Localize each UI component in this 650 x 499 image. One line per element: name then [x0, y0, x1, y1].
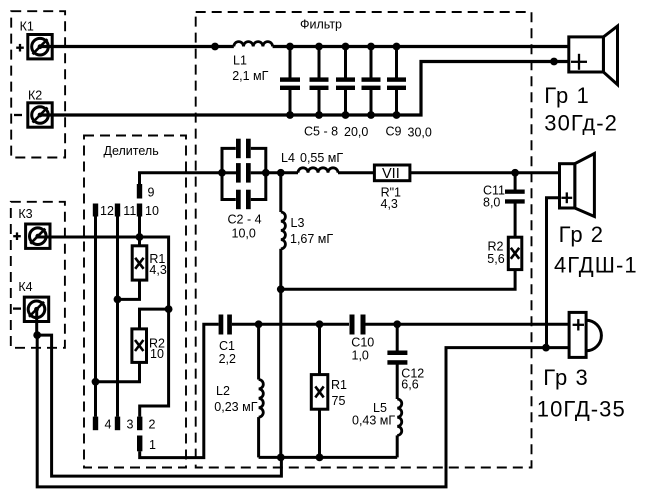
- svg-text:4: 4: [105, 418, 112, 432]
- tap 3 stub: [115, 417, 120, 431]
- wire L1 to Гр1 top: [273, 45, 569, 48]
- label − (K4): [13, 307, 21, 309]
- svg-text:10ГД-35: 10ГД-35: [537, 396, 626, 421]
- svg-text:С9: С9: [386, 125, 402, 139]
- wire L3 down to LF rail: [279, 289, 282, 457]
- terminal K2: [28, 103, 52, 127]
- svg-text:9: 9: [148, 186, 155, 200]
- wire K1 to L1: [40, 45, 234, 48]
- svg-text:1: 1: [149, 438, 156, 452]
- capacitor C12: [387, 324, 407, 399]
- svg-text:4,3: 4,3: [149, 263, 166, 277]
- inductor L1: [234, 42, 273, 47]
- speaker Гр3: [569, 312, 601, 357]
- label − (K2): [14, 114, 22, 116]
- svg-text:Гр 3: Гр 3: [543, 365, 588, 390]
- svg-text:30,0: 30,0: [408, 126, 432, 140]
- resistor R2 (divider): [132, 329, 147, 363]
- terminal K1: [28, 35, 52, 59]
- inductor L3: [281, 173, 286, 289]
- wire mid bottom rail: [281, 270, 515, 290]
- svg-text:1,0: 1,0: [352, 349, 369, 363]
- svg-text:К3: К3: [18, 207, 32, 221]
- capacitor C7: [336, 47, 355, 116]
- wire R2 top feed: [140, 309, 169, 329]
- wire Гр2 bottom: [547, 198, 560, 348]
- wire line 12-4: [94, 217, 97, 417]
- resistor R2 5,6: [508, 237, 522, 269]
- svg-text:75: 75: [332, 394, 346, 408]
- tap 1 stub: [137, 436, 142, 452]
- wire right side to tap 2: [140, 309, 169, 417]
- svg-text:L3: L3: [291, 216, 305, 230]
- wire K4 inner path to LF rail: [37, 335, 281, 476]
- junction dots filter bottom rail: [286, 111, 294, 119]
- inductor L4: [298, 168, 338, 173]
- junction dot R1 bottom: [114, 296, 122, 304]
- divider dashed box: [84, 136, 186, 468]
- svg-text:0,43 мГ: 0,43 мГ: [352, 414, 395, 428]
- wire K2 filter bottom rail: [40, 62, 569, 116]
- svg-text:К2: К2: [28, 89, 42, 103]
- svg-text:L4: L4: [281, 151, 295, 165]
- svg-text:C1: C1: [219, 339, 235, 353]
- capacitor block C2-4: [222, 139, 266, 210]
- svg-text:20,0: 20,0: [344, 125, 368, 139]
- svg-text:R1: R1: [331, 378, 347, 392]
- svg-text:5,6: 5,6: [487, 252, 504, 266]
- svg-text:L1: L1: [233, 54, 247, 68]
- junction dots top wire: [211, 43, 219, 51]
- capacitor C8: [362, 47, 381, 116]
- wire C1 to C10: [232, 323, 349, 326]
- junction dots mid rail: [218, 169, 226, 177]
- speaker Гр1: [569, 26, 618, 85]
- svg-text:1,67 мГ: 1,67 мГ: [290, 232, 333, 246]
- junction dot Гр3 bottom: [542, 344, 550, 352]
- inductor L2: [259, 324, 264, 457]
- wire L4 to VII: [338, 171, 374, 174]
- filter dashed box: [196, 12, 532, 468]
- svg-text:Гр 1: Гр 1: [544, 83, 589, 108]
- junction dot divider top: [136, 233, 144, 241]
- junction dot L3 mid rail: [277, 285, 285, 293]
- svg-text:3: 3: [127, 418, 134, 432]
- wire tap10 to R1: [138, 217, 141, 247]
- terminal K4: [24, 297, 48, 321]
- svg-text:10,0: 10,0: [232, 226, 256, 240]
- tap 12 stub: [93, 204, 98, 217]
- capacitor C10: [350, 315, 366, 335]
- svg-text:C10: C10: [351, 336, 374, 350]
- svg-text:4,3: 4,3: [381, 197, 398, 211]
- wire LF bottom rail: [259, 456, 398, 459]
- resistor R1 (divider): [132, 246, 147, 280]
- terminal K3: [26, 224, 50, 248]
- wire C2-4 to L4: [266, 171, 298, 174]
- tap 2 stub: [137, 417, 142, 431]
- svg-text:30Гд-2: 30Гд-2: [544, 111, 618, 136]
- svg-text:Фильтр: Фильтр: [300, 18, 342, 32]
- tap 9 stub: [137, 184, 142, 199]
- capacitor C5: [280, 47, 300, 116]
- svg-text:11: 11: [123, 204, 136, 218]
- tap 10 stub: [137, 204, 142, 217]
- svg-text:С5 - 8: С5 - 8: [304, 125, 338, 139]
- svg-text:12: 12: [100, 204, 114, 218]
- wire R1 bottom to line 11: [118, 280, 140, 299]
- junction dot R2 top: [165, 305, 173, 313]
- svg-text:Гр 2: Гр 2: [559, 222, 604, 247]
- junction dot Гр1 bottom: [550, 58, 558, 66]
- svg-text:К4: К4: [18, 280, 32, 294]
- junction dots LF top wire: [255, 320, 263, 328]
- svg-text:К1: К1: [20, 20, 34, 34]
- capacitor C9: [387, 47, 406, 116]
- label + (K3): [13, 232, 21, 240]
- terminal block K1/K2 dashed box: [11, 11, 65, 157]
- capacitor C1: [219, 315, 232, 335]
- svg-text:10: 10: [150, 347, 164, 361]
- svg-text:Делитель: Делитель: [104, 144, 159, 158]
- svg-text:4ГДШ-1: 4ГДШ-1: [554, 252, 638, 277]
- svg-text:С2 - 4: С2 - 4: [228, 213, 262, 227]
- wire VII to Гр2 top: [410, 171, 560, 174]
- resistor R"1 box VII: [374, 165, 410, 181]
- wire R2 bottom to line 12: [96, 362, 140, 381]
- junction dots LF bottom rail: [277, 454, 285, 462]
- tap 11 stub: [115, 204, 120, 217]
- wire K3 to divider: [38, 237, 169, 309]
- X mark R1 75: [315, 386, 323, 397]
- label + (K1): [16, 44, 24, 52]
- wire K4 to junction: [35, 309, 38, 335]
- capacitor C6: [310, 47, 329, 116]
- capacitor C11: [505, 173, 525, 237]
- svg-text:2,2: 2,2: [219, 352, 236, 366]
- svg-text:6,6: 6,6: [401, 378, 418, 392]
- svg-text:0,23 мГ: 0,23 мГ: [214, 400, 257, 414]
- terminal block K3/K4 dashed box: [11, 202, 65, 348]
- X mark R2 5,6: [511, 248, 519, 259]
- resistor R1 75: [311, 324, 328, 457]
- svg-text:L2: L2: [216, 384, 230, 398]
- wire K4 outer path to Гр3: [37, 335, 569, 487]
- junction dot K4: [33, 331, 41, 339]
- svg-text:8,0: 8,0: [483, 196, 500, 210]
- tap 4 stub: [93, 417, 98, 431]
- svg-text:0,55 мГ: 0,55 мГ: [300, 151, 343, 165]
- svg-text:2: 2: [149, 418, 156, 432]
- wire line 11-3: [116, 217, 119, 417]
- X mark R1: [135, 258, 143, 269]
- speaker Гр2: [560, 154, 595, 217]
- wire C10 to Гр3 top: [366, 323, 570, 326]
- X mark R2: [135, 340, 143, 351]
- junction dot R2 bottom: [92, 378, 100, 386]
- wire tap 1 to C1: [140, 324, 219, 457]
- svg-text:2,1 мГ: 2,1 мГ: [232, 69, 268, 83]
- svg-text:VII: VII: [382, 166, 400, 182]
- inductor L5: [397, 399, 402, 457]
- svg-text:10: 10: [145, 204, 159, 218]
- wire tap9 to C2-4: [140, 173, 223, 184]
